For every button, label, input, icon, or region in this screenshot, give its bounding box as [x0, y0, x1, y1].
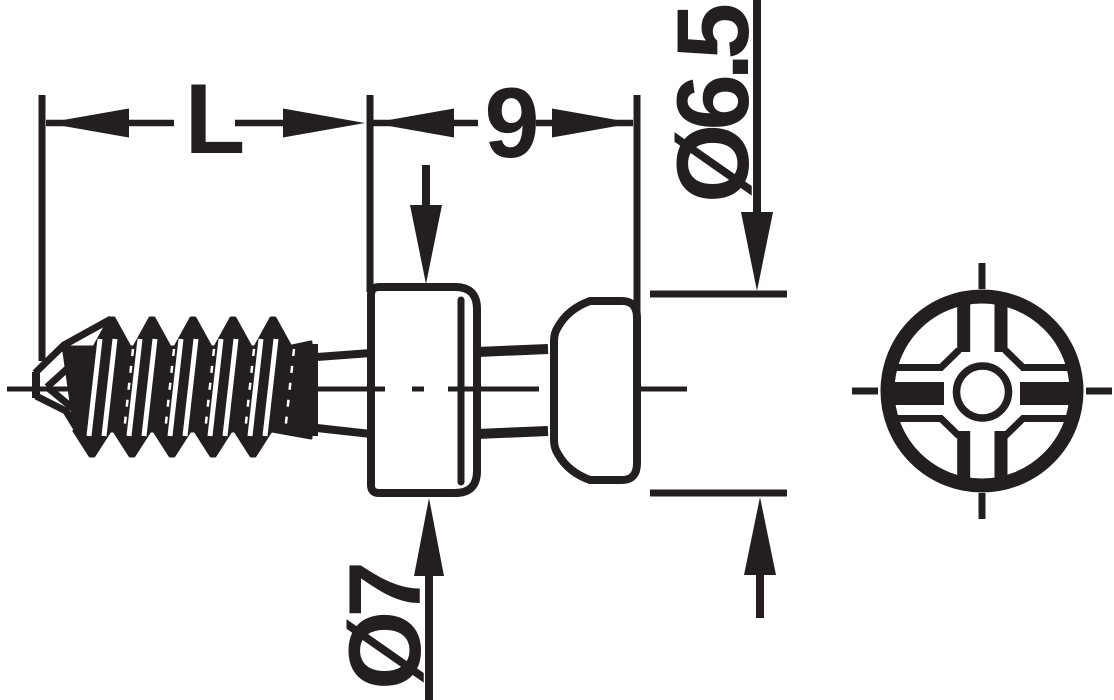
- front view centerline ticks: [852, 263, 1112, 519]
- dia6.5 dimension line: [753, 0, 761, 214]
- dia7 top arrowhead: [410, 205, 442, 284]
- recess slot bar right: [1020, 382, 1071, 405]
- centerline dash inside collar redraw: [300, 387, 539, 392]
- dia6.5 bottom arrow line: [756, 565, 764, 618]
- collar highlight line: [458, 300, 465, 482]
- screw tip facet: [32, 372, 40, 398]
- dia6.5 top arrowhead: [741, 212, 773, 291]
- svg-text:9: 9: [484, 67, 539, 178]
- dia7 bottom arrowhead: [414, 498, 444, 576]
- dimension line 9: [372, 120, 633, 127]
- neck right of collar: [477, 349, 548, 434]
- svg-text:Ø7: Ø7: [328, 565, 442, 690]
- front view ring: [888, 297, 1077, 486]
- screw thread body: [62, 318, 311, 456]
- svg-text:L: L: [185, 63, 245, 174]
- recess center circle: [957, 366, 1009, 418]
- centerline of side view: [7, 387, 687, 392]
- head bottom extension line: [650, 490, 787, 497]
- dia6.5 bottom arrowhead: [744, 497, 776, 575]
- head dome: [554, 301, 637, 480]
- collar: [371, 287, 477, 493]
- shank step: [310, 344, 318, 436]
- screw tip inner cone: [47, 359, 78, 410]
- arrowhead 9 left: [372, 109, 454, 138]
- svg-text:Ø6.5: Ø6.5: [656, 6, 770, 203]
- arrowhead L left: [46, 109, 129, 138]
- screw tip upper envelope: [35, 319, 111, 373]
- arrowhead 9 right: [552, 109, 634, 138]
- extension line 9 right / head face: [634, 95, 641, 312]
- dia7 top arrow line: [422, 165, 430, 212]
- arrowhead L right: [283, 109, 365, 138]
- dia7 bottom arrow line: [425, 563, 433, 700]
- recess slot bar left: [893, 382, 944, 405]
- extension line L right / collar left: [367, 95, 374, 292]
- dimension line L: [46, 120, 292, 127]
- neck left of collar: [317, 353, 371, 434]
- recess vertical slot lines: [964, 299, 1001, 484]
- recess quadrant outlines: [896, 350, 1068, 436]
- thread root dashed white lines: [124, 349, 294, 432]
- extension line L left: [39, 95, 46, 361]
- thread flank white slashes: [89, 339, 276, 436]
- screw tip lower envelope: [36, 396, 91, 452]
- head top extension line: [650, 291, 787, 298]
